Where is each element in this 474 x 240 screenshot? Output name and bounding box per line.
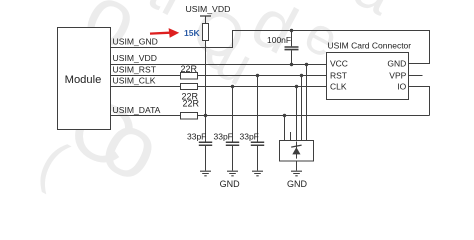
ground symbol (C3) bbox=[227, 171, 238, 176]
watermark fragment e bbox=[295, 4, 349, 71]
wire C3 to ground bbox=[232, 146, 234, 171]
wire ESD stub pin bbox=[290, 132, 292, 141]
svg-text:USIM_CLK: USIM_CLK bbox=[113, 75, 156, 85]
svg-text:USIM_RST: USIM_RST bbox=[113, 64, 157, 74]
wire USIM_RST net bbox=[110, 75, 327, 77]
node: junction CLK / ESD bbox=[295, 85, 298, 88]
node: junction DATA / R1 / C2 bbox=[204, 114, 207, 117]
svg-text:22R: 22R bbox=[183, 98, 200, 108]
wire 33pF C2 top lead from USIM_DATA bbox=[205, 116, 207, 142]
resistor R2 22R body (RST) bbox=[181, 73, 198, 80]
wire USIM_DATA net bbox=[110, 115, 430, 117]
wire ESD pin from USIM_RST bbox=[301, 76, 303, 141]
svg-text:USIM_DATA: USIM_DATA bbox=[113, 105, 161, 115]
watermark fragment 4 bbox=[29, 128, 78, 196]
svg-text:33pF: 33pF bbox=[240, 132, 259, 142]
svg-text:Module: Module bbox=[65, 74, 102, 86]
wire VPP stub bbox=[409, 75, 423, 77]
resistor R4 22R body (DATA) bbox=[181, 113, 198, 120]
svg-text:USIM_VDD: USIM_VDD bbox=[186, 4, 231, 14]
module box bbox=[58, 28, 111, 130]
svg-text:GND: GND bbox=[387, 59, 406, 69]
resistor R1 15K body bbox=[203, 24, 209, 41]
watermark fragment Q bbox=[181, 0, 257, 77]
svg-text:22R: 22R bbox=[181, 64, 198, 74]
ESD diode triangle bbox=[292, 147, 300, 154]
capacitor C1 100nF plates bbox=[285, 47, 299, 50]
wire ESD pin from VDD net bbox=[306, 65, 308, 141]
wire C2 to ground bbox=[205, 146, 207, 171]
svg-text:VCC: VCC bbox=[330, 59, 348, 69]
node: junction GND top / C1 bbox=[290, 29, 293, 32]
svg-text:USIM_GND: USIM_GND bbox=[113, 36, 158, 46]
watermark fragment 2 bbox=[53, 76, 151, 189]
node: junction VDD / ESD bbox=[305, 63, 308, 66]
power symbol USIM_VDD bar bbox=[200, 15, 211, 17]
svg-text:IO: IO bbox=[397, 82, 406, 92]
ground symbol (C4) bbox=[252, 171, 263, 176]
node: junction DATA / ESD bbox=[283, 114, 286, 117]
watermark fragment l (top, clipped) bbox=[137, 0, 198, 30]
svg-text:USIM_VDD: USIM_VDD bbox=[113, 53, 157, 63]
ESD diode cathode bar bbox=[291, 145, 301, 147]
wire USIM_VDD net (to connector VCC) bbox=[110, 64, 327, 66]
svg-text:CLK: CLK bbox=[330, 82, 347, 92]
watermark fragment u bbox=[205, 26, 263, 98]
wire USIM_GND from module bbox=[110, 47, 233, 49]
capacitor C3 33pF plates bbox=[226, 142, 239, 145]
connector J1 box bbox=[327, 53, 409, 100]
wire power bar to resistor R1 bbox=[205, 16, 207, 24]
ESD diode symbol lead bbox=[296, 142, 298, 159]
svg-text:33pF: 33pF bbox=[214, 132, 233, 142]
ground symbol (ESD) bbox=[291, 171, 302, 176]
svg-text:100nF: 100nF bbox=[267, 35, 291, 45]
watermark fragment d bbox=[239, 0, 309, 70]
svg-text:33pF: 33pF bbox=[187, 132, 206, 142]
capacitor C1 100nF bottom lead bbox=[291, 50, 293, 64]
wire resistor R1 bottom to USIM_DATA bbox=[205, 41, 207, 116]
wire IO loop to USIM_DATA bbox=[409, 87, 430, 116]
svg-text:USIM Card Connector: USIM Card Connector bbox=[328, 41, 412, 51]
svg-text:RST: RST bbox=[330, 70, 347, 80]
svg-text:GND: GND bbox=[287, 179, 308, 189]
annotation red arrow bbox=[150, 28, 179, 38]
wire USIM_CLK net bbox=[110, 86, 327, 88]
svg-text:15K: 15K bbox=[184, 28, 201, 38]
ground symbol (C2) bbox=[200, 171, 211, 176]
wire GND loop to connector GND bbox=[233, 31, 430, 64]
capacitor C1 100nF top lead bbox=[291, 31, 293, 47]
node: junction RST / ESD bbox=[300, 74, 303, 77]
watermark fragment 3 bbox=[86, 89, 178, 203]
wire ESD pin from USIM_DATA bbox=[284, 116, 286, 141]
svg-text:GND: GND bbox=[220, 179, 241, 189]
wire ESD to ground bbox=[296, 161, 298, 171]
node: junction VDD / C1 bbox=[290, 63, 293, 66]
watermark fragment ring (top-left, clipped) bbox=[69, 0, 153, 70]
wire 33pF C3 top lead from USIM_CLK bbox=[232, 87, 234, 142]
capacitor C2 33pF plates bbox=[199, 142, 212, 145]
node: junction CLK / C3 bbox=[231, 85, 234, 88]
svg-text:VPP: VPP bbox=[389, 70, 406, 80]
watermark fragment specks (top, clipped) bbox=[331, 0, 407, 29]
wire 33pF C4 top lead from USIM_RST bbox=[257, 76, 259, 142]
wire C4 to ground bbox=[257, 146, 259, 171]
node: junction RST / C4 bbox=[256, 74, 259, 77]
wire ESD pin from USIM_CLK bbox=[296, 87, 298, 141]
resistor R3 22R body (CLK) bbox=[181, 84, 198, 90]
ESD array D1 box bbox=[280, 141, 314, 162]
capacitor C4 33pF plates bbox=[251, 142, 264, 145]
